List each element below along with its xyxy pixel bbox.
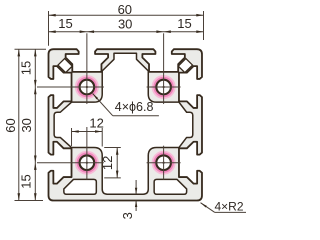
top dim extension lines — [48, 11, 50, 46]
leader 4xR2 — [201, 203, 215, 213]
hole TR pink highlight ring — [154, 78, 173, 97]
svg-text:4×ϕ6.8: 4×ϕ6.8 — [115, 100, 154, 114]
hole TL phi6.8 circle — [80, 80, 95, 95]
dimension 12 horizontal over node — [71, 128, 73, 146]
dimension 3 bottom wall — [135, 180, 137, 194]
dimension 12 vertical right of node — [104, 147, 121, 149]
hole TR phi6.8 circle — [156, 80, 171, 95]
center cross cavity — [54, 53, 193, 194]
centerlines hole TL (extended to top+left dims) — [86, 33, 88, 104]
profile body: 60x60 aluminium extrusion cross-section — [49, 49, 202, 200]
corner channel top-right — [178, 59, 192, 73]
hole BR phi6.8 circle — [156, 155, 171, 170]
centerlines hole TR — [163, 33, 165, 104]
svg-text:12: 12 — [89, 116, 103, 131]
hole BL phi6.8 circle — [80, 155, 95, 170]
dimension row 15/30/15 top — [49, 31, 204, 33]
dimension 60 top — [49, 14, 204, 16]
dimension column 15/30/15 left — [34, 49, 36, 200]
centerlines hole BL (extended up through 12-dim, left to dim) — [86, 127, 88, 180]
bottom closed slot cavity right — [154, 179, 186, 194]
svg-text:30: 30 — [19, 118, 34, 132]
hole BL pink highlight ring — [77, 153, 96, 172]
bottom closed slot cavity left — [64, 179, 96, 194]
left dim extension lines — [15, 48, 47, 50]
svg-text:15: 15 — [58, 16, 72, 31]
hole TL pink highlight ring — [77, 78, 96, 97]
svg-text:4×R2: 4×R2 — [215, 199, 244, 213]
svg-text:15: 15 — [177, 16, 191, 31]
svg-text:30: 30 — [118, 16, 132, 31]
leader 4xphi6.8 — [93, 94, 113, 116]
svg-text:15: 15 — [19, 61, 34, 75]
centerlines hole BR — [163, 146, 165, 180]
svg-text:12: 12 — [100, 156, 115, 170]
dimension 60 left — [18, 49, 20, 200]
corner channel top-left — [58, 59, 72, 73]
svg-text:3: 3 — [120, 212, 135, 219]
hole BR pink highlight ring — [154, 153, 173, 172]
svg-text:60: 60 — [118, 2, 132, 17]
svg-text:60: 60 — [3, 118, 18, 132]
svg-text:15: 15 — [19, 174, 34, 188]
